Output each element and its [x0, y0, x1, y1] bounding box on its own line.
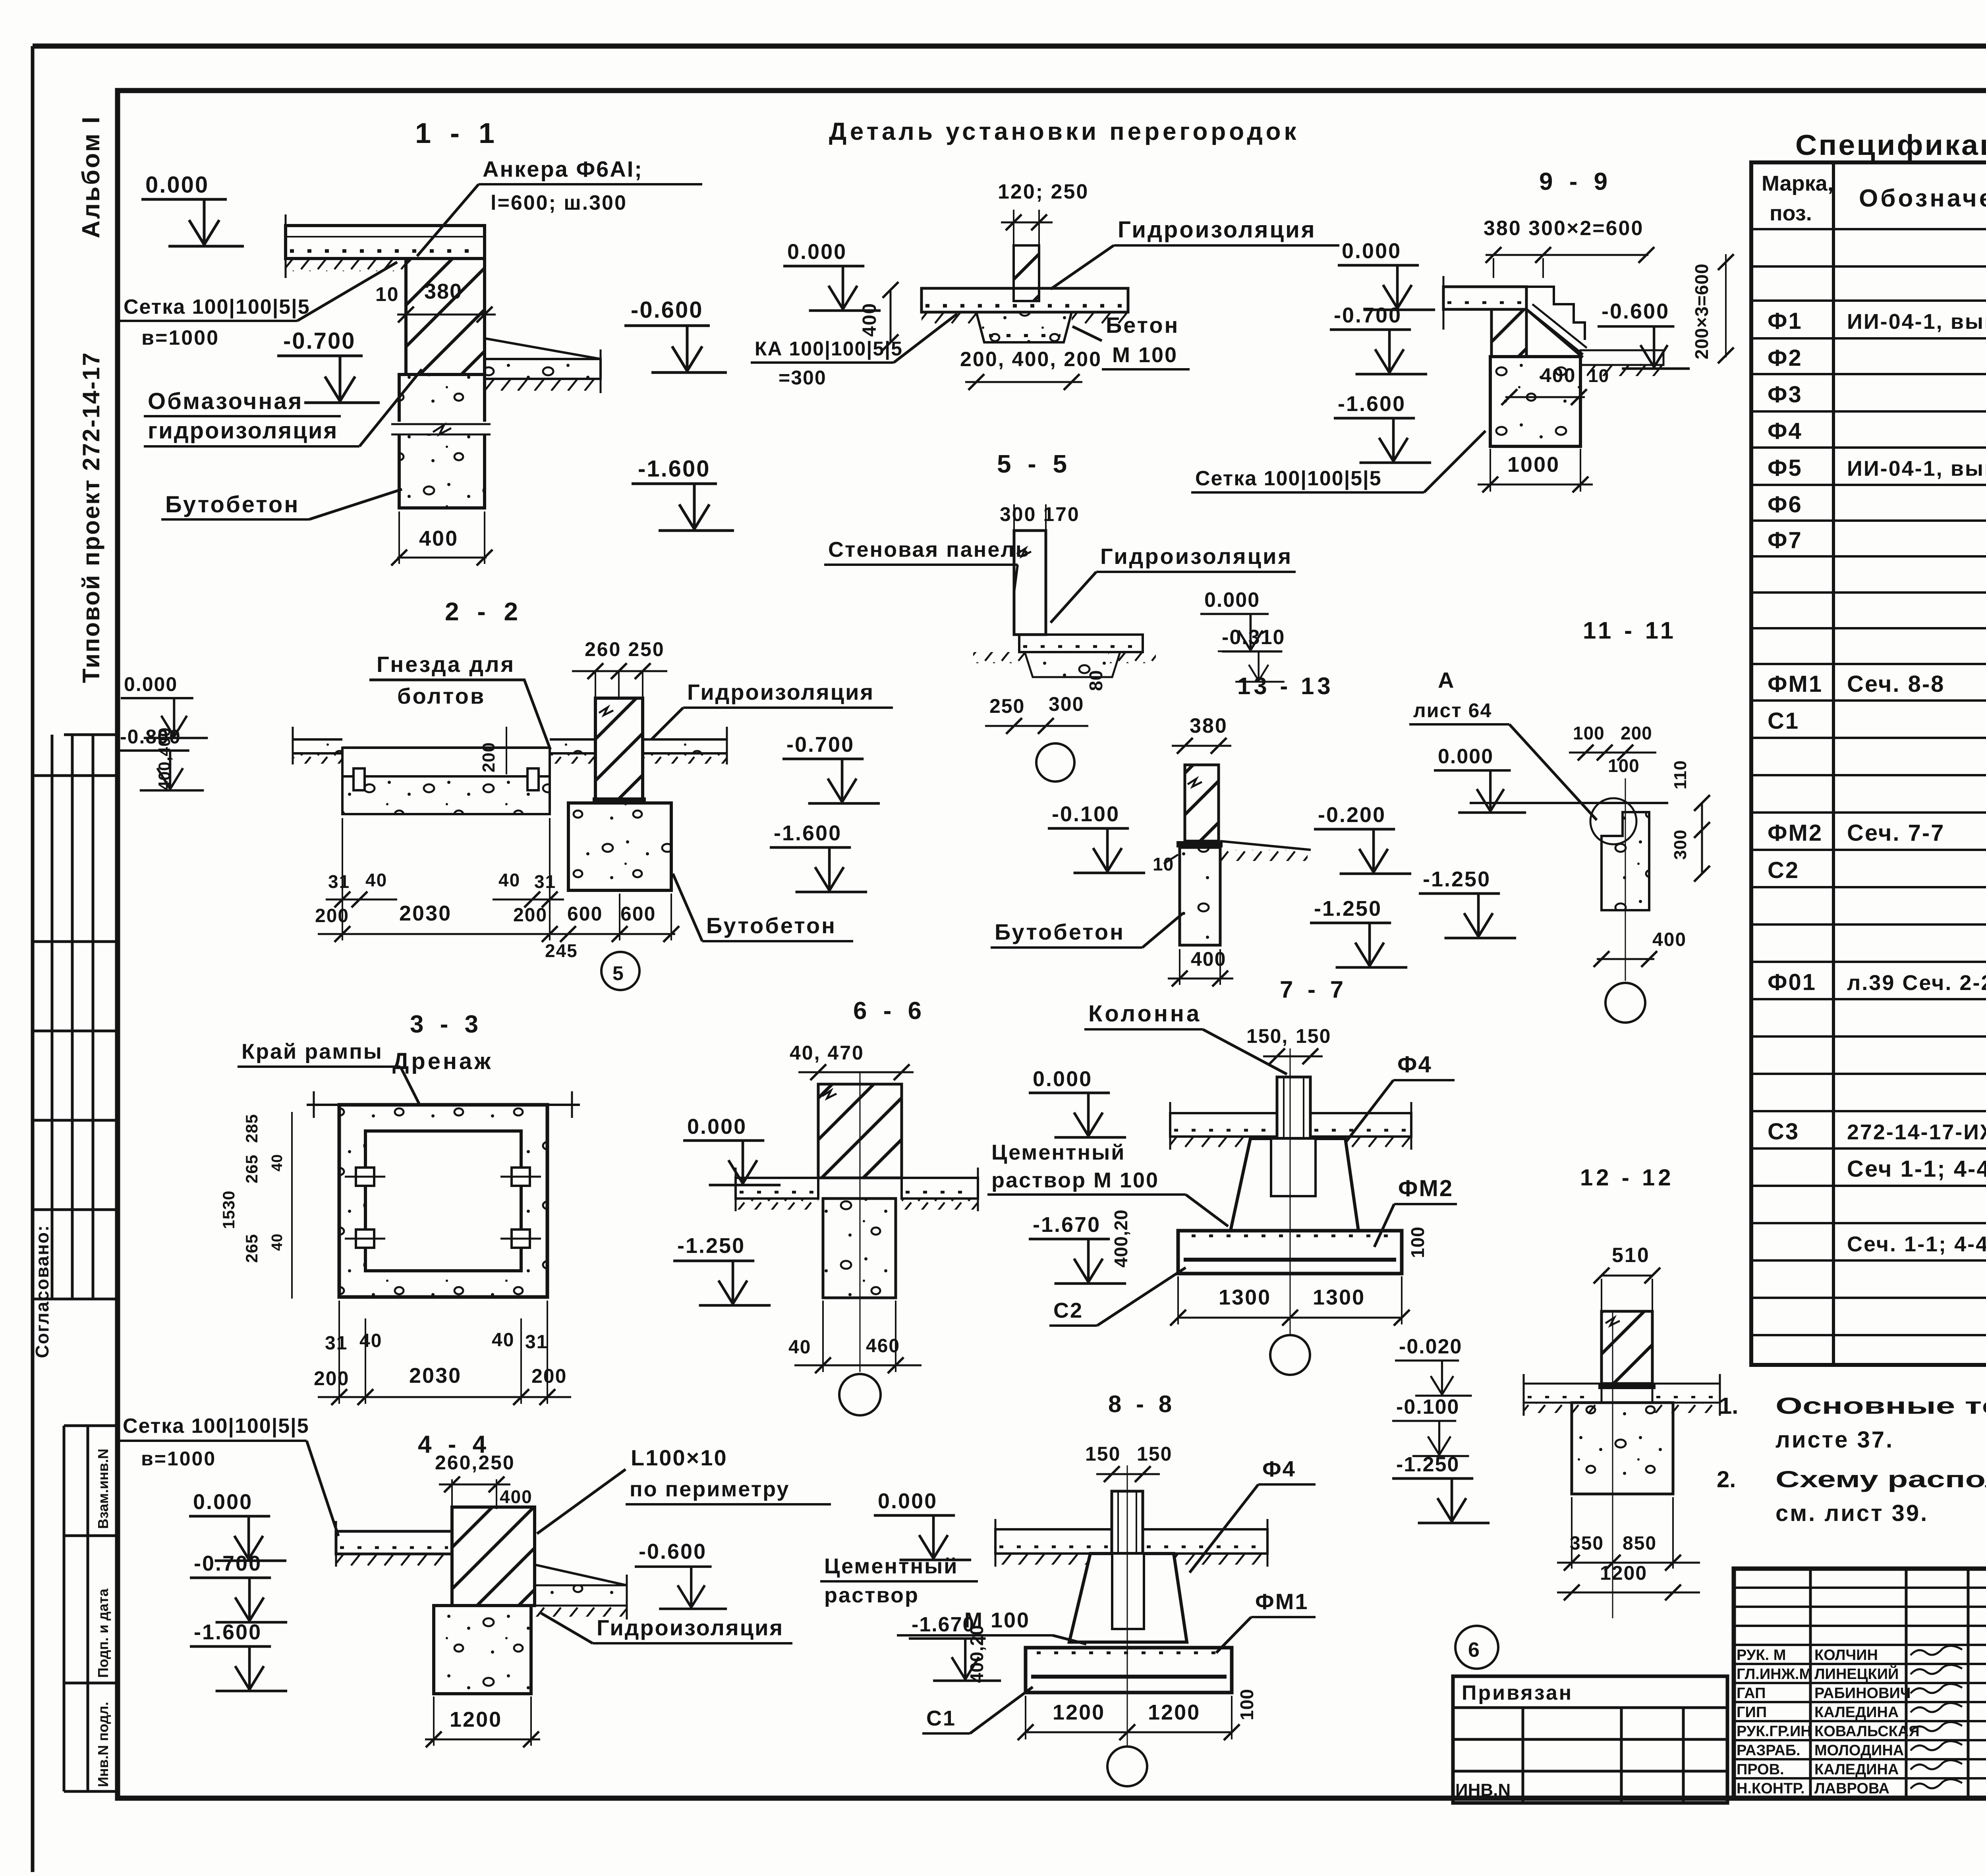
svg-text:150,: 150,	[1246, 1025, 1288, 1047]
svg-text:13 - 13: 13 - 13	[1237, 673, 1334, 699]
svg-text:2.: 2.	[1717, 1467, 1736, 1492]
svg-text:1300: 1300	[1219, 1285, 1271, 1309]
svg-text:ИНВ.N: ИНВ.N	[1455, 1780, 1511, 1800]
svg-text:2 - 2: 2 - 2	[445, 597, 524, 626]
svg-text:ИИ-04-1, вып.6 л. 2: ИИ-04-1, вып.6 л. 2	[1847, 310, 1986, 334]
svg-text:Сетка 100|100|5|5: Сетка 100|100|5|5	[124, 295, 310, 318]
svg-text:l=600; ш.300: l=600; ш.300	[491, 191, 627, 214]
svg-text:400,20: 400,20	[966, 1625, 987, 1683]
svg-text:200: 200	[531, 1365, 567, 1387]
svg-text:-1.600: -1.600	[774, 821, 842, 845]
svg-text:-0.100: -0.100	[1396, 1395, 1459, 1419]
svg-text:400: 400	[419, 527, 458, 550]
svg-text:350: 350	[1570, 1533, 1604, 1554]
svg-text:С1: С1	[926, 1706, 956, 1730]
svg-text:Стеновая панель: Стеновая панель	[828, 538, 1030, 562]
svg-text:поз.: поз.	[1770, 201, 1812, 225]
svg-text:-1.600: -1.600	[194, 1620, 262, 1644]
svg-text:285: 285	[242, 1114, 261, 1143]
svg-text:5 - 5: 5 - 5	[997, 450, 1072, 478]
svg-text:600: 600	[567, 903, 603, 925]
svg-text:КОЛЧИН: КОЛЧИН	[1814, 1647, 1878, 1664]
svg-text:Согласовано:: Согласовано:	[32, 1225, 52, 1358]
svg-text:гидроизоляция: гидроизоляция	[148, 418, 338, 444]
svg-text:ФМ2: ФМ2	[1398, 1175, 1453, 1201]
svg-text:6 - 6: 6 - 6	[853, 997, 926, 1025]
svg-text:260 250: 260 250	[585, 638, 665, 660]
svg-text:0.000: 0.000	[1204, 589, 1260, 612]
svg-text:МОЛОДИНА: МОЛОДИНА	[1814, 1742, 1904, 1759]
svg-text:Цементный: Цементный	[824, 1554, 958, 1578]
svg-text:150: 150	[1137, 1443, 1172, 1465]
svg-text:Бутобетон: Бутобетон	[995, 919, 1125, 944]
svg-text:9 - 9: 9 - 9	[1539, 168, 1612, 195]
svg-text:Обозначение: Обозначение	[1859, 185, 1986, 212]
svg-text:150: 150	[1085, 1443, 1121, 1465]
svg-text:-1.600: -1.600	[638, 456, 710, 482]
svg-text:200, 400, 200: 200, 400, 200	[960, 348, 1102, 371]
svg-text:-1.670: -1.670	[912, 1613, 975, 1636]
svg-text:265: 265	[242, 1234, 261, 1263]
svg-text:ФМ1: ФМ1	[1255, 1589, 1309, 1614]
svg-text:Привязан: Привязан	[1462, 1681, 1573, 1704]
svg-text:150: 150	[1296, 1025, 1331, 1047]
svg-text:300: 300	[1671, 830, 1690, 860]
svg-text:1200: 1200	[1600, 1562, 1647, 1584]
svg-text:Гидроизоляция: Гидроизоляция	[1118, 217, 1316, 243]
svg-text:200: 200	[314, 1367, 349, 1390]
svg-text:Ф2: Ф2	[1768, 345, 1802, 371]
svg-text:Гнезда для: Гнезда для	[377, 652, 515, 677]
svg-text:400,400: 400,400	[155, 727, 174, 790]
svg-text:-0.700: -0.700	[194, 1552, 262, 1575]
svg-text:Альбом I: Альбом I	[77, 115, 105, 238]
svg-text:КАЛЕДИНА: КАЛЕДИНА	[1814, 1704, 1899, 1721]
svg-text:200: 200	[1621, 723, 1652, 743]
svg-text:Гидроизоляция: Гидроизоляция	[1100, 544, 1292, 569]
svg-text:5: 5	[612, 962, 624, 984]
svg-text:40: 40	[359, 1330, 382, 1351]
svg-text:200: 200	[315, 905, 349, 926]
svg-text:6: 6	[1468, 1639, 1480, 1662]
svg-text:А: А	[1438, 668, 1455, 693]
svg-text:см. лист 39.: см. лист 39.	[1775, 1500, 1928, 1526]
svg-text:Сеч 1-1; 4-4: Сеч 1-1; 4-4	[1847, 1156, 1986, 1182]
svg-text:2030: 2030	[409, 1364, 462, 1388]
svg-text:-0.700: -0.700	[786, 733, 854, 757]
svg-text:Ф7: Ф7	[1768, 527, 1802, 553]
svg-text:М 100: М 100	[1112, 343, 1178, 367]
svg-text:0.000: 0.000	[193, 1490, 253, 1514]
svg-text:-0.310: -0.310	[1222, 626, 1285, 649]
svg-text:260,250: 260,250	[435, 1451, 515, 1474]
svg-text:265: 265	[242, 1154, 261, 1183]
svg-text:КА 100|100|5|5: КА 100|100|5|5	[755, 338, 903, 360]
svg-text:Н.КОНТР.: Н.КОНТР.	[1737, 1780, 1805, 1797]
svg-text:-0.100: -0.100	[1052, 802, 1120, 826]
svg-text:раствор М 100: раствор М 100	[991, 1168, 1159, 1192]
svg-text:КОВАЛЬСКАЯ: КОВАЛЬСКАЯ	[1814, 1723, 1920, 1740]
svg-text:-0.700: -0.700	[283, 328, 355, 354]
svg-text:1530: 1530	[219, 1191, 238, 1229]
svg-text:40, 470: 40, 470	[790, 1042, 864, 1064]
svg-text:40: 40	[492, 1330, 514, 1351]
svg-text:Сетка 100|100|5|5: Сетка 100|100|5|5	[123, 1415, 309, 1438]
svg-text:0.000: 0.000	[1033, 1067, 1092, 1091]
svg-text:80: 80	[1086, 670, 1106, 691]
svg-text:3 - 3: 3 - 3	[410, 1011, 483, 1038]
svg-text:ГЛ.ИНЖ.М: ГЛ.ИНЖ.М	[1737, 1666, 1812, 1683]
svg-text:31: 31	[328, 871, 350, 892]
svg-text:200: 200	[479, 742, 498, 772]
svg-text:ЛАВРОВА: ЛАВРОВА	[1814, 1780, 1889, 1797]
svg-text:Цементный: Цементный	[991, 1141, 1125, 1164]
svg-text:Край рампы: Край рампы	[241, 1040, 383, 1063]
svg-text:0.000: 0.000	[1438, 745, 1493, 768]
svg-text:1300: 1300	[1313, 1285, 1365, 1309]
svg-text:1200: 1200	[1053, 1700, 1105, 1724]
svg-text:Основные технические требова: Основные технические требования даны на	[1775, 1393, 1986, 1419]
svg-text:600: 600	[620, 903, 656, 925]
svg-text:40: 40	[269, 1154, 286, 1172]
svg-text:-0.200: -0.200	[1318, 803, 1386, 827]
svg-text:РАЗРАБ.: РАЗРАБ.	[1737, 1742, 1801, 1759]
svg-text:400: 400	[1540, 364, 1576, 386]
svg-text:0.000: 0.000	[124, 673, 178, 695]
svg-text:Обмазочная: Обмазочная	[148, 388, 303, 414]
svg-text:Бутобетон: Бутобетон	[165, 492, 299, 517]
svg-text:-0.020: -0.020	[1399, 1335, 1462, 1358]
svg-text:380 300×2=600: 380 300×2=600	[1484, 217, 1644, 240]
svg-text:ЛИНЕЦКИЙ: ЛИНЕЦКИЙ	[1814, 1665, 1899, 1683]
svg-text:Ф4: Ф4	[1768, 418, 1802, 444]
svg-text:-1.670: -1.670	[1033, 1213, 1101, 1237]
svg-text:400: 400	[1191, 948, 1226, 970]
svg-text:ПРОВ.: ПРОВ.	[1737, 1761, 1784, 1778]
svg-text:=300: =300	[779, 367, 827, 389]
svg-text:-1.250: -1.250	[1423, 867, 1491, 891]
svg-text:Гидроизоляция: Гидроизоляция	[597, 1615, 784, 1640]
svg-text:1200: 1200	[450, 1708, 502, 1731]
svg-text:100: 100	[1236, 1689, 1257, 1720]
svg-text:11 - 11: 11 - 11	[1583, 617, 1677, 644]
svg-text:-0.700: -0.700	[1334, 303, 1402, 327]
svg-text:Типовой проект 272-14-17: Типовой проект 272-14-17	[78, 351, 104, 683]
svg-text:ГИП: ГИП	[1737, 1704, 1767, 1721]
svg-text:Колонна: Колонна	[1088, 1001, 1202, 1027]
svg-text:1000: 1000	[1507, 453, 1560, 477]
svg-text:ФМ1: ФМ1	[1768, 671, 1823, 697]
svg-text:100: 100	[1573, 723, 1605, 743]
svg-text:ГАП: ГАП	[1737, 1685, 1766, 1702]
svg-text:10: 10	[375, 283, 399, 305]
svg-text:2030: 2030	[399, 901, 452, 925]
svg-text:Спецификация элементов фунда: Спецификация элементов фундаментов	[1795, 129, 1986, 161]
svg-text:380: 380	[1190, 714, 1228, 737]
svg-text:-1.250: -1.250	[677, 1234, 745, 1258]
svg-text:Ф01: Ф01	[1768, 969, 1816, 995]
svg-text:0.000: 0.000	[687, 1115, 747, 1139]
svg-text:Подп. и дата: Подп. и дата	[95, 1588, 111, 1678]
svg-text:400: 400	[500, 1486, 533, 1507]
svg-text:400: 400	[1652, 929, 1687, 950]
svg-text:-0.600: -0.600	[631, 297, 703, 323]
svg-text:120; 250: 120; 250	[998, 180, 1089, 203]
svg-text:Сеч. 1-1; 4-4; 9-9: Сеч. 1-1; 4-4; 9-9	[1847, 1232, 1986, 1256]
svg-text:Дренаж: Дренаж	[392, 1048, 493, 1074]
svg-text:Ф3: Ф3	[1768, 382, 1802, 407]
svg-text:40: 40	[269, 1233, 286, 1251]
svg-text:Взам.инв.N: Взам.инв.N	[95, 1449, 111, 1529]
svg-text:200×3=600: 200×3=600	[1691, 263, 1712, 359]
svg-text:Гидроизоляция: Гидроизоляция	[687, 679, 874, 704]
svg-text:510: 510	[1612, 1244, 1650, 1267]
svg-text:10: 10	[1588, 365, 1609, 386]
svg-text:в=1000: в=1000	[141, 1448, 216, 1470]
svg-text:0.000: 0.000	[145, 172, 209, 198]
svg-text:С2: С2	[1053, 1299, 1083, 1322]
svg-text:Ф4: Ф4	[1397, 1052, 1432, 1077]
svg-text:в=1000: в=1000	[141, 326, 219, 349]
svg-text:С3: С3	[1768, 1119, 1799, 1145]
svg-text:лист 64: лист 64	[1413, 699, 1492, 722]
svg-text:Сеч. 7-7: Сеч. 7-7	[1847, 820, 1945, 846]
svg-text:8 - 8: 8 - 8	[1108, 1391, 1176, 1417]
svg-text:КАЛЕДИНА: КАЛЕДИНА	[1814, 1761, 1899, 1778]
svg-text:100: 100	[1608, 755, 1640, 776]
svg-text:400,20: 400,20	[1111, 1209, 1131, 1268]
svg-text:31: 31	[534, 871, 556, 892]
svg-text:300: 300	[1049, 693, 1084, 715]
svg-text:380: 380	[424, 280, 462, 303]
svg-text:Сеч. 8-8: Сеч. 8-8	[1847, 671, 1945, 697]
svg-text:12 - 12: 12 - 12	[1580, 1165, 1674, 1191]
svg-text:-0.600: -0.600	[639, 1540, 707, 1563]
svg-text:1 - 1: 1 - 1	[415, 118, 500, 149]
svg-text:1.: 1.	[1719, 1393, 1738, 1419]
svg-text:Ф1: Ф1	[1768, 308, 1802, 334]
svg-text:Схему расположения элементов ф: Схему расположения элементов фундаментов	[1775, 1467, 1986, 1492]
svg-text:40: 40	[365, 870, 387, 890]
svg-text:Бетон: Бетон	[1106, 313, 1179, 338]
svg-text:40: 40	[788, 1337, 811, 1358]
svg-text:ИИ-04-1, вып.7 л. 2: ИИ-04-1, вып.7 л. 2	[1847, 457, 1986, 481]
svg-text:-1.250: -1.250	[1314, 897, 1382, 921]
svg-text:С2: С2	[1768, 857, 1799, 883]
svg-text:Ф6: Ф6	[1768, 492, 1802, 517]
svg-text:31: 31	[325, 1333, 348, 1354]
svg-text:л.39 Сеч. 2-2: л.39 Сеч. 2-2	[1847, 971, 1986, 995]
svg-text:Марка,: Марка,	[1762, 172, 1833, 195]
svg-text:31: 31	[525, 1332, 548, 1353]
svg-text:РАБИНОВИЧ: РАБИНОВИЧ	[1814, 1685, 1911, 1702]
svg-text:ФМ2: ФМ2	[1768, 820, 1823, 846]
svg-text:0.000: 0.000	[787, 240, 847, 264]
svg-text:850: 850	[1623, 1533, 1657, 1554]
svg-text:Бутобетон: Бутобетон	[706, 913, 837, 938]
svg-text:40: 40	[498, 870, 520, 890]
svg-text:400: 400	[859, 303, 880, 337]
svg-text:раствор: раствор	[824, 1583, 919, 1607]
svg-text:10: 10	[1153, 854, 1174, 874]
svg-text:Ф5: Ф5	[1768, 455, 1802, 481]
svg-text:1200: 1200	[1148, 1700, 1200, 1724]
svg-text:Инв.N подл.: Инв.N подл.	[95, 1702, 111, 1787]
svg-text:L100×10: L100×10	[631, 1445, 728, 1470]
svg-text:-1.250: -1.250	[1396, 1453, 1459, 1476]
svg-text:по периметру: по периметру	[630, 1477, 790, 1501]
svg-text:-1.600: -1.600	[1338, 392, 1406, 416]
svg-text:272-14-17-ИЖ2-08.00: 272-14-17-ИЖ2-08.00	[1847, 1120, 1986, 1144]
svg-text:Сетка 100|100|5|5: Сетка 100|100|5|5	[1195, 467, 1382, 490]
svg-text:245: 245	[545, 940, 578, 961]
svg-text:-0.600: -0.600	[1602, 299, 1669, 323]
svg-text:250: 250	[989, 695, 1025, 717]
svg-text:7 - 7: 7 - 7	[1280, 976, 1347, 1003]
svg-text:0.000: 0.000	[1342, 239, 1401, 263]
svg-text:Анкера Ф6АI;: Анкера Ф6АI;	[483, 156, 643, 181]
svg-text:РУК.ГР.ИН: РУК.ГР.ИН	[1737, 1723, 1812, 1740]
svg-text:110: 110	[1671, 760, 1690, 789]
svg-text:300 170: 300 170	[1000, 503, 1080, 525]
svg-text:Деталь установки перегородок: Деталь установки перегородок	[829, 118, 1300, 145]
svg-text:листе 37.: листе 37.	[1775, 1427, 1894, 1453]
svg-text:болтов: болтов	[397, 683, 485, 708]
svg-text:РУК. М: РУК. М	[1737, 1647, 1786, 1664]
svg-text:200: 200	[513, 905, 547, 926]
svg-text:С1: С1	[1768, 708, 1799, 734]
svg-text:100: 100	[1407, 1226, 1428, 1258]
svg-text:0.000: 0.000	[878, 1489, 937, 1513]
svg-text:Ф4: Ф4	[1262, 1456, 1296, 1481]
